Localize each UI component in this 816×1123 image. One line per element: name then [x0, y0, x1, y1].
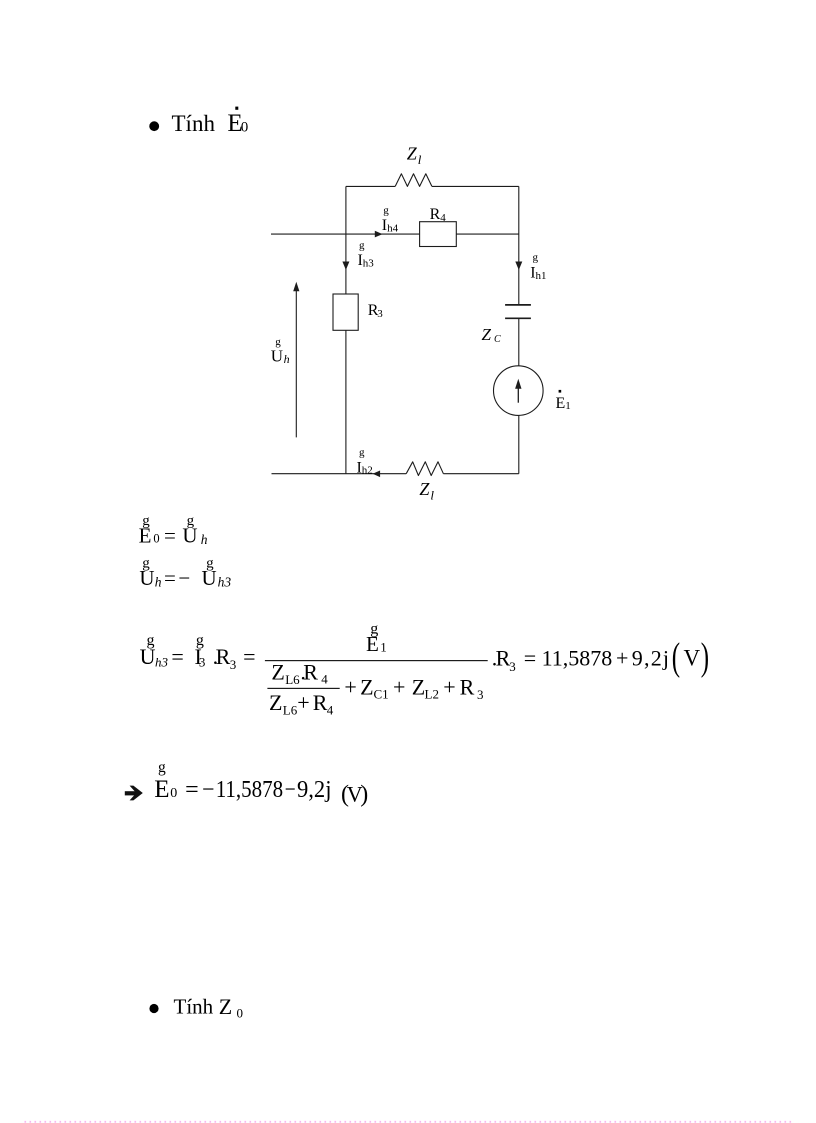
- label R3: [368, 302, 384, 320]
- svg-text:=: =: [524, 646, 536, 671]
- svg-text:): ): [360, 782, 368, 808]
- svg-text:E: E: [366, 632, 379, 656]
- svg-text:1: 1: [380, 640, 387, 655]
- svg-text:g: g: [383, 205, 389, 217]
- label I_h3: [358, 240, 375, 270]
- svg-text:=: =: [171, 644, 183, 669]
- svg-text:h: h: [201, 532, 208, 547]
- svg-text:Tính: Tính: [174, 995, 214, 1019]
- current arrow I_h4 (right): [375, 231, 383, 238]
- source arrow (up): [517, 388, 519, 403]
- svg-text:l: l: [430, 488, 434, 503]
- dotted footer line: [25, 1121, 792, 1123]
- svg-text:g: g: [359, 447, 365, 459]
- svg-text:Z: Z: [269, 690, 282, 715]
- label I_h4: [382, 205, 399, 235]
- resistor Z_l bottom (zigzag): [406, 462, 443, 476]
- svg-text:4: 4: [327, 703, 334, 718]
- label I_h2: [357, 447, 373, 477]
- svg-text:=: =: [164, 566, 176, 590]
- label R4: [430, 206, 447, 224]
- fraction bar main: [265, 660, 488, 661]
- source E1 (circle): [494, 366, 544, 416]
- svg-text:0: 0: [170, 786, 177, 801]
- wire middle right: [456, 233, 519, 235]
- svg-text:U: U: [139, 566, 154, 590]
- svg-text:h: h: [155, 574, 162, 589]
- bullet item 1: [149, 121, 159, 131]
- svg-text:3: 3: [199, 655, 206, 670]
- svg-text:=: =: [185, 777, 199, 803]
- svg-text:9,2j: 9,2j: [632, 645, 670, 670]
- svg-text:L6: L6: [283, 703, 298, 718]
- svg-text:Z: Z: [407, 143, 418, 163]
- svg-text:V: V: [684, 646, 701, 671]
- svg-text:+: +: [443, 674, 455, 699]
- nested fraction bar: [267, 688, 339, 689]
- svg-text:): ): [701, 636, 709, 679]
- svg-text:(: (: [672, 636, 680, 679]
- svg-text:h2: h2: [362, 465, 373, 477]
- label U_h: [271, 336, 290, 366]
- svg-text:+: +: [393, 674, 405, 699]
- wire top-right: [432, 185, 519, 187]
- svg-text:R: R: [216, 644, 231, 669]
- svg-text:h3: h3: [363, 258, 375, 270]
- svg-text:11,5878: 11,5878: [216, 777, 284, 803]
- svg-text:−: −: [178, 566, 190, 590]
- svg-text:0: 0: [237, 1006, 244, 1021]
- wire middle input: [271, 233, 420, 235]
- svg-text:Z: Z: [271, 660, 284, 685]
- svg-text:4: 4: [321, 671, 328, 686]
- svg-text:3: 3: [230, 657, 237, 672]
- wire top-left: [346, 185, 395, 187]
- svg-text:l: l: [418, 152, 422, 167]
- svg-text:C1: C1: [374, 687, 389, 702]
- arrow bullet (chevron): [125, 786, 143, 801]
- svg-text:E: E: [139, 524, 152, 548]
- svg-text:3: 3: [377, 308, 383, 320]
- svg-text:Z: Z: [219, 994, 232, 1019]
- capacitor Z_C plates: [505, 305, 531, 318]
- voltage arrow U_h (up): [295, 291, 297, 438]
- svg-text:4: 4: [440, 212, 446, 224]
- current arrow I_h3 (down): [342, 262, 349, 271]
- svg-text:L6: L6: [285, 672, 300, 687]
- svg-text:U: U: [202, 566, 217, 590]
- label Z_l top: [407, 143, 422, 167]
- svg-text:g: g: [158, 759, 166, 776]
- svg-text:9,2j: 9,2j: [297, 777, 332, 803]
- svg-text:−: −: [202, 777, 214, 803]
- numerator E1: [366, 620, 387, 656]
- svg-text:0: 0: [153, 532, 159, 546]
- svg-text:−: −: [285, 777, 296, 803]
- svg-text:Z: Z: [412, 674, 425, 699]
- svg-text:h3: h3: [155, 655, 169, 670]
- svg-text:E: E: [556, 395, 566, 412]
- wire cap to source: [518, 318, 520, 366]
- svg-text:Z: Z: [419, 479, 430, 499]
- svg-text:Tính: Tính: [172, 111, 216, 136]
- formula E0 = Uh: [139, 513, 208, 548]
- svg-text:U: U: [182, 524, 197, 548]
- svg-text:3: 3: [509, 659, 516, 674]
- formula Uh3 = I3.R3 = E1/(ZL6.R4/(ZL6+R4)+ZC1+ZL2+R3).R3: [140, 632, 256, 672]
- svg-text:C: C: [494, 334, 501, 345]
- svg-text:+: +: [344, 674, 356, 699]
- current arrow I_h2 (left): [373, 471, 381, 478]
- label I_h1: [530, 252, 546, 282]
- svg-text:=: =: [243, 644, 255, 669]
- svg-text:R: R: [313, 690, 328, 715]
- svg-text:11,5878: 11,5878: [542, 645, 613, 670]
- formula E0 = -11,5878-9,2j (V): [154, 759, 368, 807]
- svg-text:h1: h1: [536, 270, 547, 282]
- svg-text:Z: Z: [360, 674, 373, 699]
- svg-text:R: R: [430, 206, 441, 223]
- svg-text:U: U: [140, 644, 156, 669]
- label Z_C: [482, 325, 502, 345]
- svg-text:L2: L2: [425, 687, 439, 702]
- svg-text:g: g: [533, 252, 539, 264]
- svg-text:=: =: [164, 524, 176, 548]
- resistor R4 (box): [420, 222, 457, 247]
- svg-text:0: 0: [241, 120, 249, 136]
- label E1: [556, 390, 571, 412]
- resistor Z_l top (zigzag): [395, 174, 432, 187]
- svg-text:h4: h4: [387, 223, 399, 235]
- svg-text:g: g: [359, 240, 365, 252]
- wire right rail lower: [518, 415, 520, 473]
- svg-text:1: 1: [565, 400, 571, 412]
- svg-text:E: E: [154, 776, 169, 803]
- wire left rail upper: [345, 186, 347, 294]
- bullet item 2: [149, 1004, 158, 1013]
- svg-text:3: 3: [477, 687, 484, 702]
- svg-text:R: R: [303, 660, 318, 685]
- current arrow I_h1 (down): [515, 262, 522, 271]
- svg-text:Z: Z: [482, 325, 492, 344]
- nested fraction numerator ZL6.R4: [271, 660, 328, 687]
- wire left rail lower: [345, 330, 347, 473]
- label Z_l bottom: [419, 479, 434, 502]
- wire bottom-left: [272, 473, 407, 475]
- svg-text:+: +: [297, 690, 309, 715]
- resistor R3 (box): [333, 294, 358, 330]
- formula Uh = -Uh3: [139, 555, 231, 590]
- denominator terms +ZC1+ZL2+R3: [344, 674, 483, 702]
- wire bottom-right: [443, 473, 518, 475]
- svg-text:h: h: [284, 352, 290, 366]
- svg-text:U: U: [271, 347, 283, 366]
- svg-text:h3: h3: [218, 574, 232, 589]
- svg-text:R: R: [460, 674, 475, 699]
- svg-text:+: +: [616, 645, 628, 670]
- nested fraction denominator ZL6+R4: [269, 690, 334, 718]
- right side .R3 = 11,5878+9,2j(V): [492, 636, 709, 679]
- wire right rail upper: [518, 186, 520, 305]
